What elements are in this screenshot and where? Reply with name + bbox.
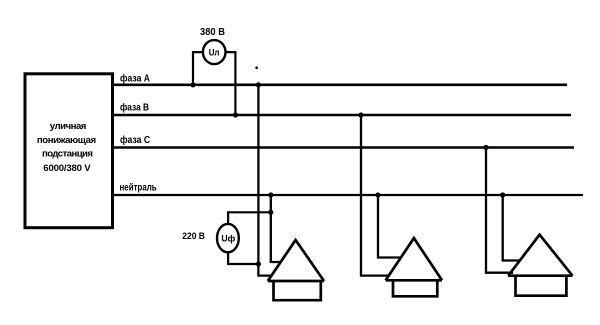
svg-text:Uл: Uл bbox=[209, 48, 220, 58]
wire Uл right lead bbox=[226, 52, 236, 115]
node phase-B drop on bus bbox=[358, 112, 363, 117]
node neutral drop 1 on bus bbox=[268, 192, 273, 197]
wire Uф bottom lead bbox=[228, 252, 258, 264]
house 1 bbox=[268, 240, 324, 300]
voltmeter Uл bbox=[203, 40, 226, 64]
svg-text:фаза В: фаза В bbox=[120, 102, 149, 114]
svg-text:фаза С: фаза С bbox=[120, 134, 150, 146]
wire phase B drop to house 2 bbox=[361, 115, 388, 276]
svg-text:6000/380 V: 6000/380 V bbox=[43, 163, 91, 174]
svg-text:220 В: 220 В bbox=[182, 231, 205, 242]
wire phase B bus bbox=[112, 114, 571, 117]
house 3 bbox=[508, 235, 572, 296]
wire Uф top lead bbox=[228, 212, 272, 223]
node neutral drop 2 on bus bbox=[375, 192, 380, 197]
node phase-C drop on bus bbox=[483, 145, 488, 150]
wire neutral drop to house 3 bbox=[503, 195, 520, 261]
wire neutral drop to house 2 bbox=[378, 195, 401, 258]
wire phase C bus bbox=[112, 146, 574, 149]
wire phase C drop to house 3 bbox=[486, 148, 513, 273]
wire phase A bus bbox=[112, 84, 567, 87]
wire neutral drop to house 1 bbox=[271, 195, 280, 262]
house 2 bbox=[386, 238, 442, 296]
svg-text:уличная: уличная bbox=[50, 121, 87, 132]
svg-text:380 В: 380 В bbox=[200, 27, 225, 38]
substation label "уличная понижающая подстанция 6000/380 V" bbox=[37, 121, 96, 174]
svg-text:фаза А: фаза А bbox=[120, 73, 150, 85]
node Uф-top on neutral drop bbox=[268, 210, 273, 215]
svg-text:нейтраль: нейтраль bbox=[120, 183, 157, 194]
svg-text:Uф: Uф bbox=[221, 233, 235, 243]
node Uл-right on phase B bbox=[233, 112, 238, 117]
node phase-A drop on bus bbox=[256, 82, 261, 87]
voltmeter Uф bbox=[217, 224, 239, 252]
svg-text:понижающая: понижающая bbox=[37, 135, 96, 146]
node neutral drop 3 on bus bbox=[500, 192, 505, 197]
node Uл-left on phase A bbox=[190, 82, 195, 87]
substation box bbox=[25, 74, 113, 228]
stray dot bbox=[255, 66, 258, 69]
wire neutral bus bbox=[112, 194, 583, 196]
wire Uл left lead bbox=[193, 52, 203, 85]
svg-text:подстанция: подстанция bbox=[42, 148, 93, 159]
node Uф-bottom on phase A drop bbox=[256, 261, 261, 266]
wire phase A drop to house 1 bbox=[258, 85, 271, 276]
